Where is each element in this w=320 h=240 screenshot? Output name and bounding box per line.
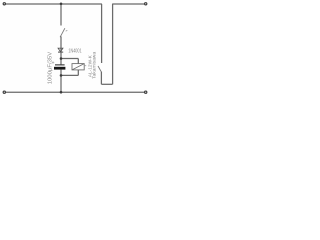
svg-text:1000µF/35V: 1000µF/35V xyxy=(47,51,53,84)
svg-text:Takamisawa: Takamisawa xyxy=(91,51,96,78)
svg-text:1N4001: 1N4001 xyxy=(68,48,81,54)
